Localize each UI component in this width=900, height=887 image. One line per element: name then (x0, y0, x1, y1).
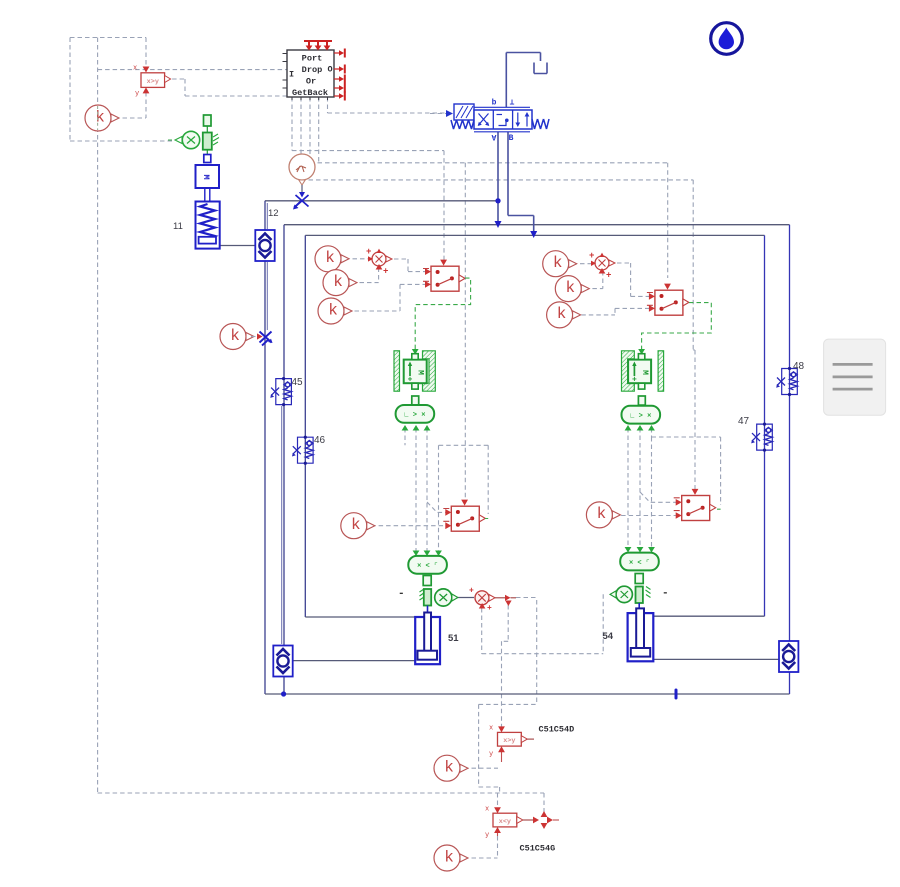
svg-text:+: + (632, 376, 637, 385)
svg-text:+: + (383, 267, 388, 277)
svg-text:O: O (327, 65, 332, 75)
svg-text:x: x (133, 65, 137, 73)
svg-text:× < ⌜: × < ⌜ (629, 559, 650, 567)
svg-text:51: 51 (448, 633, 459, 644)
svg-text:y: y (485, 832, 489, 840)
svg-text:+: + (589, 251, 594, 261)
svg-text:+: + (469, 587, 474, 596)
svg-text:GetBack: GetBack (292, 88, 328, 98)
svg-text:x: x (485, 806, 489, 814)
svg-text:11: 11 (173, 221, 183, 232)
svg-text:54: 54 (603, 631, 614, 642)
svg-text:Port: Port (302, 54, 323, 64)
svg-text:∟ > ×: ∟ > × (404, 412, 425, 420)
svg-text:× < ⌜: × < ⌜ (417, 563, 438, 571)
svg-text:x>y: x>y (147, 78, 159, 86)
svg-text:A: A (491, 132, 496, 141)
svg-text:+: + (487, 604, 492, 613)
svg-text:Drop: Drop (302, 65, 323, 75)
svg-text:⊥: ⊥ (510, 99, 515, 108)
svg-text:M: M (640, 370, 649, 375)
svg-text:-: - (662, 588, 669, 600)
svg-text:48: 48 (793, 361, 805, 372)
svg-text:Or: Or (306, 77, 316, 87)
svg-text:C51C54D: C51C54D (539, 725, 575, 735)
svg-text:I: I (289, 70, 294, 80)
svg-text:y: y (489, 751, 493, 759)
svg-text:M: M (201, 174, 211, 179)
svg-text:+: + (606, 271, 611, 281)
svg-text:45: 45 (292, 377, 304, 388)
svg-text:∟ > ×: ∟ > × (630, 413, 651, 421)
svg-text:47: 47 (738, 416, 750, 427)
svg-text:x<y: x<y (499, 818, 511, 826)
svg-text:46: 46 (314, 435, 326, 446)
svg-text:B: B (509, 134, 514, 143)
svg-text:12: 12 (268, 208, 279, 219)
svg-text:b: b (492, 99, 497, 108)
svg-text:x>y: x>y (503, 737, 515, 745)
svg-text:x: x (489, 725, 493, 733)
svg-text:C51C54G: C51C54G (520, 844, 556, 854)
svg-text:y: y (135, 90, 139, 98)
svg-text:-: - (398, 588, 405, 600)
svg-text:+: + (366, 247, 371, 257)
